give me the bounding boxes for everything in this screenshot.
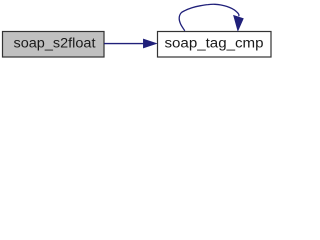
node soap_tag_cmp	[158, 32, 272, 58]
edge soap_s2float -> soap_tag_cmp	[104, 39, 156, 47]
svg-text:soap_tag_cmp: soap_tag_cmp	[165, 36, 264, 52]
svg-text:soap_s2float: soap_s2float	[14, 36, 96, 52]
self loop soap_tag_cmp -> soap_tag_cmp	[179, 4, 243, 31]
background	[0, 0, 277, 61]
node soap_s2float (current node, grey)	[3, 32, 105, 58]
